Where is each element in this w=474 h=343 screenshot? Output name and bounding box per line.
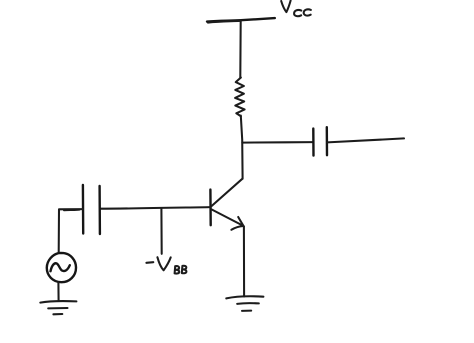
label -VBB : minus sign	[146, 261, 153, 264]
wire: Vcc supply rail	[207, 18, 275, 22]
label Vcc : subscript c (first)	[294, 10, 301, 16]
capacitor C2 left plate	[312, 129, 315, 156]
wire: -VBB stub	[160, 208, 162, 254]
ground (emitter) bar 1	[226, 296, 263, 298]
wire: emitter down to ground	[243, 227, 245, 297]
wire: C1 corner retrace stroke	[64, 209, 80, 212]
emitter arrowhead barb upper	[238, 217, 244, 227]
transistor Q1 base bar	[209, 190, 212, 226]
AC source VS (circle)	[47, 253, 76, 282]
label Vcc : subscript c (second)	[304, 9, 311, 15]
capacitor C2 right plate	[326, 127, 329, 155]
capacitor C1 right plate	[98, 186, 101, 234]
emitter arrowhead barb lower	[231, 226, 243, 230]
ground (source) bar 1	[40, 301, 76, 303]
wire: collector node to output capacitor	[242, 141, 313, 144]
wire: base (from input capacitor to base bar)	[100, 207, 210, 209]
wire: rail down to resistor	[239, 20, 241, 78]
wire: output lead to the right	[327, 138, 404, 142]
transistor Q1 collector lead (diagonal)	[211, 179, 242, 207]
label -VBB : letter V	[157, 257, 170, 270]
wire: Vcc rail retrace (left half darker)	[208, 21, 240, 23]
AC source sine wave	[51, 263, 70, 271]
wire: source to C1 (corner)	[59, 209, 83, 253]
ground (emitter) bar 2	[237, 302, 259, 305]
wire: source to ground	[57, 282, 59, 301]
resistor RC (collector resistor, zigzag)	[235, 78, 245, 117]
wire: resistor to collector node and down to collector bend	[241, 116, 243, 179]
label -VBB : subscript B (first)	[175, 266, 180, 273]
label -VBB : subscript B (second)	[182, 266, 187, 273]
ground (emitter) bar 3	[242, 310, 251, 312]
label Vcc : letter V	[281, 1, 290, 13]
ground (source) bar 2	[48, 307, 67, 309]
transistor Q1 emitter lead (diagonal)	[212, 209, 244, 226]
ground (source) bar 3	[53, 313, 62, 315]
capacitor C1 left plate	[82, 185, 85, 234]
